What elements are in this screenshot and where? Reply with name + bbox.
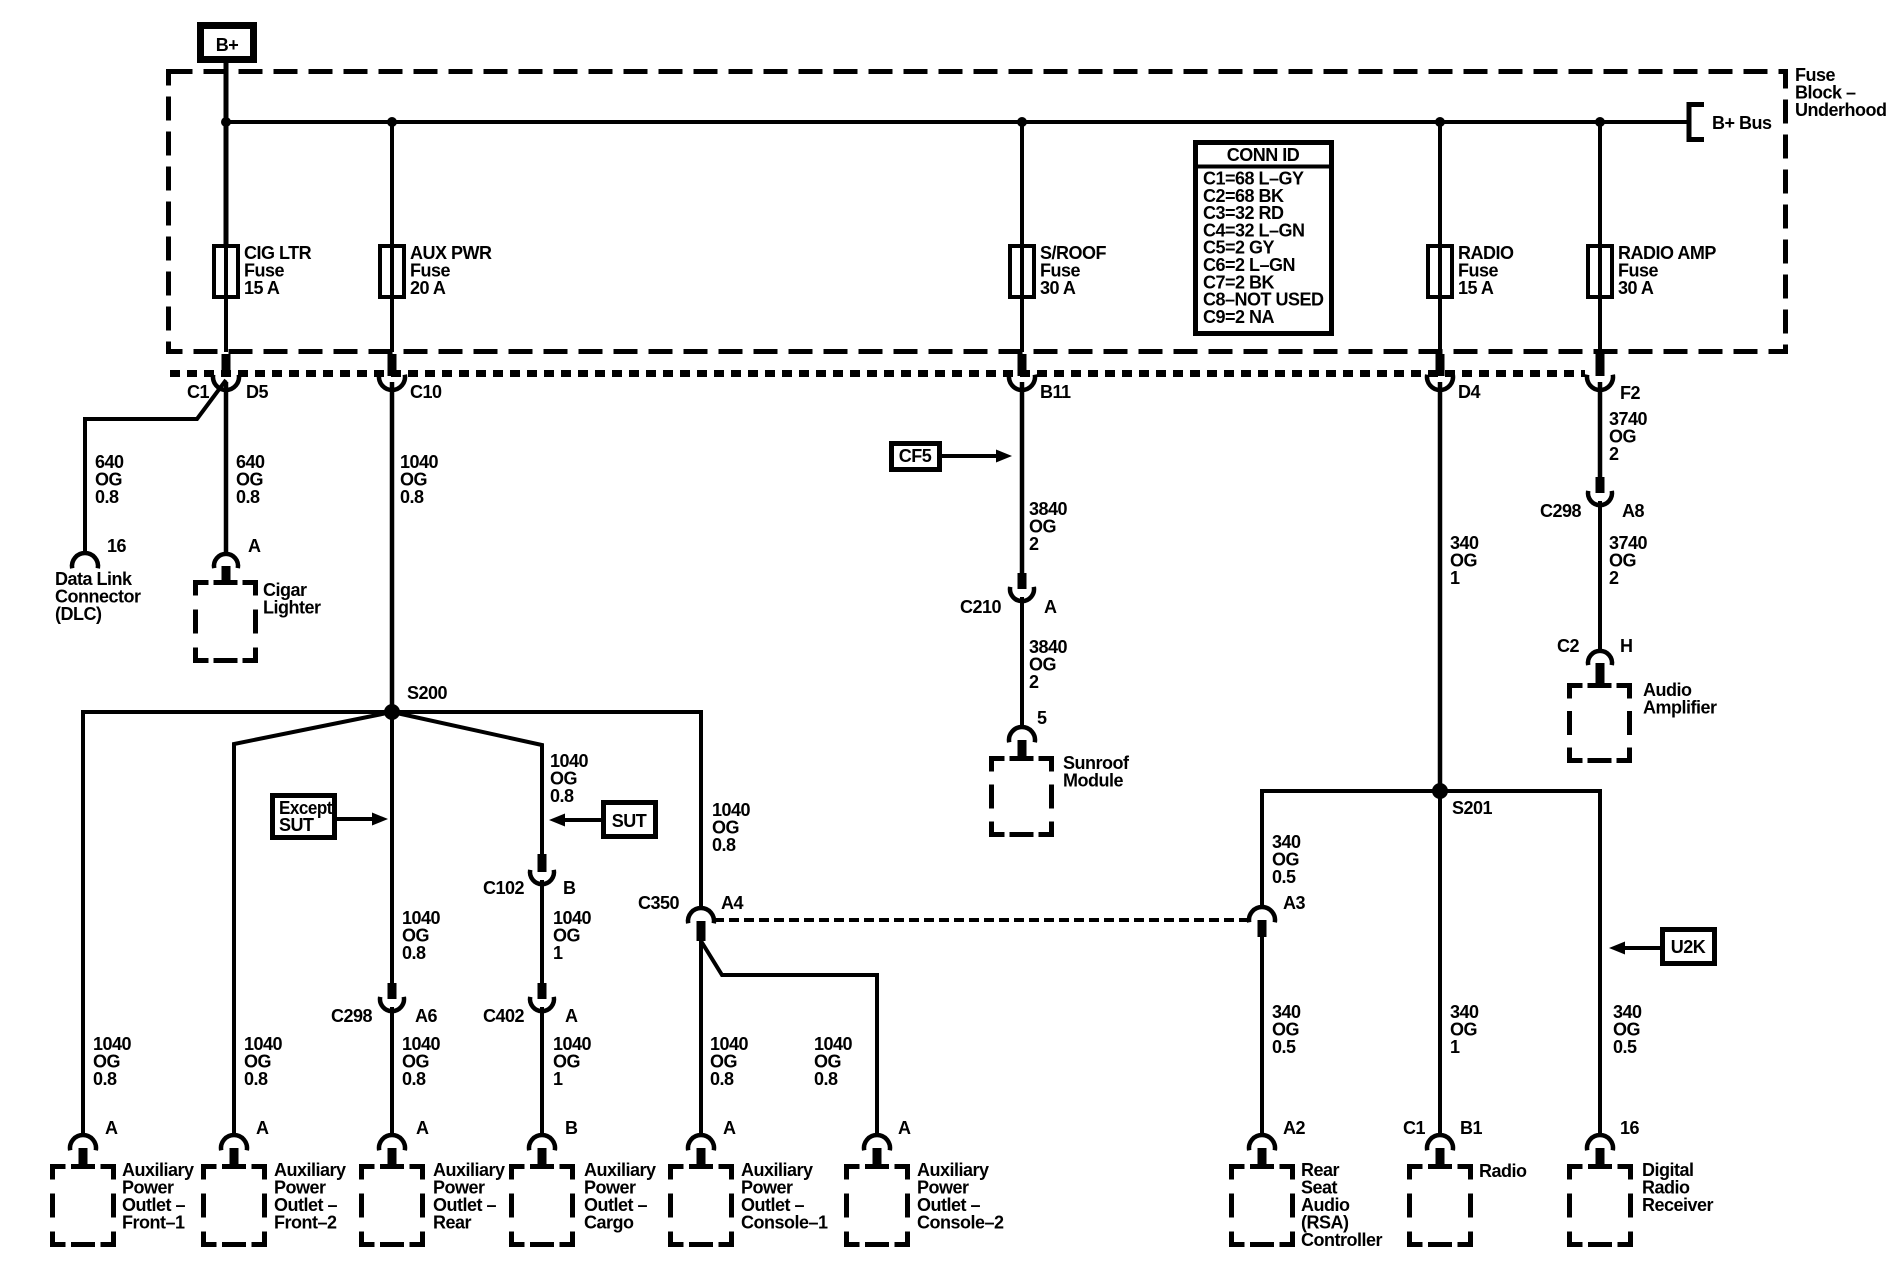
wire S200 to front-1 outlet	[83, 712, 392, 1135]
wire A3 to A2	[1260, 935, 1264, 1135]
auxiliary power outlet console-2 box	[847, 1167, 908, 1245]
wire CIG LTR fuse to connector row	[224, 297, 228, 352]
svg-text:2: 2	[1609, 568, 1619, 588]
wire label / connector pin A (console-1)	[688, 1118, 736, 1166]
wire label 1040 OG 1 (C102-C402)	[553, 908, 592, 963]
svg-text:A4: A4	[721, 893, 743, 913]
svg-text:0.8: 0.8	[402, 943, 426, 963]
pin 16 label	[107, 536, 127, 556]
wire label / connector pin A (console-2)	[864, 1118, 911, 1166]
svg-text:A: A	[565, 1006, 578, 1026]
svg-text:0.8: 0.8	[712, 835, 736, 855]
wire C102 to C402	[540, 880, 544, 983]
svg-text:C102: C102	[483, 878, 525, 898]
pin 5 label	[1037, 708, 1047, 728]
svg-text:CF5: CF5	[899, 446, 932, 466]
wire label 640 OG 0.8 (DLC)	[95, 452, 124, 507]
wire label 1040 OG 1 (cargo)	[553, 1034, 592, 1089]
wire label 3740 OG 2 (lower)	[1609, 533, 1648, 588]
arrow SUT to wire	[549, 814, 601, 827]
connector sunroof pin 5	[1009, 727, 1035, 757]
svg-text:Module: Module	[1063, 771, 1123, 791]
arrow Except SUT to wire	[337, 813, 388, 826]
svg-text:(DLC): (DLC)	[55, 604, 102, 624]
sunroof module box	[992, 759, 1052, 835]
connector A3 pin	[1249, 893, 1305, 937]
connector B11 pin	[1009, 354, 1071, 402]
svg-text:A: A	[248, 536, 261, 556]
wire D4 to S201	[1438, 382, 1443, 791]
svg-text:2: 2	[1029, 672, 1039, 692]
wire B+ to bus	[224, 63, 229, 246]
svg-text:Front–1: Front–1	[122, 1213, 185, 1233]
wire C350 to console-1 outlet	[699, 939, 703, 1135]
wire S200 to front-2 outlet	[234, 712, 392, 1135]
wire label 1040 OG 0.8 (C298 upper)	[402, 908, 441, 963]
wire S201 to A3	[1262, 791, 1440, 908]
auxiliary power outlet rear box	[362, 1167, 423, 1245]
wire C350 to console-2 outlet	[701, 941, 877, 1135]
svg-text:2: 2	[1029, 534, 1039, 554]
svg-text:0.8: 0.8	[236, 487, 260, 507]
svg-text:B: B	[563, 878, 576, 898]
svg-text:B: B	[565, 1118, 578, 1138]
fuse S/ROOF fuse 30 A	[1010, 243, 1107, 298]
wire label 340 OG 0.5 (DRR)	[1613, 1002, 1642, 1057]
fuse RADIO AMP fuse 30 A	[1588, 243, 1716, 298]
svg-text:15 A: 15 A	[244, 278, 280, 298]
connector C298 pin A6	[331, 983, 437, 1026]
svg-text:1: 1	[1450, 568, 1460, 588]
wire S200 to cargo branch	[392, 712, 542, 854]
svg-text:B11: B11	[1040, 382, 1071, 402]
connector C10 pin	[379, 354, 442, 402]
pin A2 label	[1283, 1118, 1305, 1138]
label Auxiliary Power Outlet rear	[433, 1160, 505, 1233]
svg-text:16: 16	[1620, 1118, 1640, 1138]
auxiliary power outlet cargo box	[512, 1167, 573, 1245]
svg-text:0.5: 0.5	[1613, 1037, 1637, 1057]
wire RADIO fuse to connector row	[1438, 297, 1442, 352]
wire S200 to C350 branch	[392, 712, 701, 909]
wire bus to CIG LTR fuse	[224, 122, 228, 246]
svg-text:30 A: 30 A	[1040, 278, 1076, 298]
wire C1 to DLC	[85, 380, 226, 553]
svg-text:B1: B1	[1460, 1118, 1482, 1138]
svg-text:0.8: 0.8	[550, 786, 574, 806]
power feed B+ box	[201, 26, 254, 60]
svg-text:CONN ID: CONN ID	[1227, 145, 1300, 165]
svg-text:Amplifier: Amplifier	[1643, 698, 1717, 718]
connector DRR pin 16	[1587, 1135, 1613, 1166]
label Sunroof Module	[1063, 753, 1130, 791]
connector D4 pin	[1427, 354, 1480, 402]
bus junction node col3	[1017, 117, 1027, 127]
label Digital Radio Receiver	[1642, 1160, 1714, 1215]
svg-text:D4: D4	[1458, 382, 1480, 402]
svg-text:S200: S200	[407, 683, 448, 703]
wire S/ROOF fuse to connector row	[1020, 297, 1024, 352]
wire label 1040 OG 0.8 (console-2)	[814, 1034, 853, 1089]
wire S200 down to C298	[390, 712, 394, 983]
wire C210 to sunroof module	[1020, 597, 1024, 727]
connector C210 pin A	[960, 573, 1057, 617]
svg-text:S201: S201	[1452, 798, 1493, 818]
svg-text:1: 1	[553, 1069, 563, 1089]
svg-text:A: A	[1044, 597, 1057, 617]
splice S201	[1432, 783, 1493, 818]
svg-text:15 A: 15 A	[1458, 278, 1494, 298]
svg-text:A3: A3	[1283, 893, 1305, 913]
label Auxiliary Power Outlet console-1	[741, 1160, 828, 1233]
svg-text:5: 5	[1037, 708, 1047, 728]
wire label / connector pin A (front-1)	[70, 1034, 132, 1166]
wire label 340 OG 0.5 (A2)	[1272, 1002, 1301, 1057]
cigar lighter box	[196, 583, 256, 661]
svg-text:Underhood: Underhood	[1795, 100, 1887, 120]
svg-text:U2K: U2K	[1671, 937, 1706, 957]
label Data Link Connector (DLC)	[55, 569, 141, 624]
wire C10 to S200	[390, 382, 395, 712]
wire label / connector pin A (front-2)	[221, 1034, 283, 1166]
pin A label (cigar)	[248, 536, 261, 556]
wire RADIO AMP fuse to connector row	[1598, 297, 1602, 352]
svg-text:1: 1	[1450, 1037, 1460, 1057]
label Fuse Block - Underhood	[1795, 65, 1887, 120]
callout U2K box	[1663, 930, 1715, 964]
svg-text:C2: C2	[1557, 636, 1579, 656]
wire label 3740 OG 2 (upper)	[1609, 409, 1648, 464]
wire bus to RADIO AMP fuse	[1598, 122, 1602, 246]
svg-text:0.8: 0.8	[402, 1069, 426, 1089]
wire D5 to cigar lighter	[224, 382, 229, 553]
svg-text:A: A	[105, 1118, 118, 1138]
B+ bus wire	[226, 120, 1687, 124]
svg-text:30 A: 30 A	[1618, 278, 1654, 298]
digital radio receiver box	[1570, 1167, 1631, 1245]
connector C298 pin A8	[1540, 477, 1644, 521]
wire label / connector pin A (rear)	[379, 1118, 429, 1166]
arrow U2K to wire	[1609, 942, 1660, 955]
wire F2 to C298	[1598, 382, 1603, 477]
label Cigar Lighter	[263, 580, 321, 618]
svg-text:B+ Bus: B+ Bus	[1712, 113, 1772, 133]
svg-text:C298: C298	[1540, 501, 1582, 521]
wire B11 to C210	[1020, 382, 1025, 573]
svg-text:Lighter: Lighter	[263, 598, 321, 618]
svg-text:0.5: 0.5	[1272, 1037, 1296, 1057]
svg-text:C210: C210	[960, 597, 1002, 617]
label Auxiliary Power Outlet front-2	[274, 1160, 346, 1233]
svg-text:Cargo: Cargo	[584, 1213, 634, 1233]
connector RSA pin A2	[1249, 1135, 1275, 1166]
svg-text:Receiver: Receiver	[1642, 1195, 1714, 1215]
wire bus to S/ROOF fuse	[1020, 122, 1024, 246]
svg-text:A6: A6	[415, 1006, 437, 1026]
wire C298 to C2	[1598, 501, 1602, 651]
connector F2 pin	[1587, 354, 1640, 403]
svg-text:1: 1	[553, 943, 563, 963]
connector C1/D5 pin	[187, 354, 268, 402]
svg-text:D5: D5	[246, 382, 268, 402]
wire label / connector pin B (cargo)	[529, 1118, 578, 1166]
wire S201 to digital radio receiver	[1440, 791, 1600, 1135]
svg-text:A: A	[723, 1118, 736, 1138]
wire C402 to cargo outlet	[540, 1007, 544, 1135]
pin 16 label (DRR)	[1620, 1118, 1640, 1138]
wire S201 to radio	[1438, 791, 1442, 1135]
svg-text:H: H	[1620, 636, 1633, 656]
svg-text:Rear: Rear	[433, 1213, 472, 1233]
rear seat audio controller box	[1232, 1167, 1293, 1245]
bus junction node col4	[1435, 117, 1445, 127]
wire label 1040 OG 0.8 (C350 upper)	[712, 800, 751, 855]
fuse block pass-through dotted row	[170, 370, 1585, 377]
svg-text:C298: C298	[331, 1006, 373, 1026]
svg-text:Radio: Radio	[1479, 1161, 1527, 1181]
svg-text:C1: C1	[1403, 1118, 1425, 1138]
connector cigar lighter pin A	[214, 554, 238, 582]
callout Except SUT box	[273, 796, 335, 838]
bus junction node col1	[221, 117, 231, 127]
svg-text:C402: C402	[483, 1006, 525, 1026]
wire AUX PWR fuse to connector row	[390, 297, 394, 352]
svg-text:F2: F2	[1620, 383, 1640, 403]
wire bus to AUX PWR fuse	[390, 122, 394, 246]
radio box	[1410, 1167, 1471, 1245]
auxiliary power outlet console-1 box	[671, 1167, 732, 1245]
svg-text:A2: A2	[1283, 1118, 1305, 1138]
svg-text:A: A	[898, 1118, 911, 1138]
B+ bus terminal bracket	[1689, 105, 1772, 140]
wire label 1040 OG 0.8 (C10)	[400, 452, 439, 507]
svg-text:Front–2: Front–2	[274, 1213, 337, 1233]
svg-text:A8: A8	[1622, 501, 1644, 521]
audio amplifier box	[1570, 686, 1630, 761]
auxiliary power outlet front-2 box	[204, 1167, 265, 1245]
svg-text:C9=2 NA: C9=2 NA	[1203, 307, 1275, 327]
wire label 1040 OG 0.8 (console-1)	[710, 1034, 749, 1089]
label Auxiliary Power Outlet console-2	[917, 1160, 1004, 1233]
wire bus to RADIO fuse	[1438, 122, 1442, 246]
label Rear Seat Audio (RSA) Controller	[1301, 1160, 1382, 1250]
bus junction node col2	[387, 117, 397, 127]
fuse RADIO fuse 15 A	[1428, 243, 1514, 298]
wire label 640 OG 0.8 (cigar)	[236, 452, 265, 507]
pin C1/B1 labels	[1403, 1118, 1482, 1138]
wire C298 to rear outlet	[390, 1007, 394, 1135]
wire label 3840 OG 2 (lower)	[1029, 637, 1068, 692]
svg-text:A: A	[416, 1118, 429, 1138]
splice S200	[384, 683, 448, 720]
label Auxiliary Power Outlet cargo	[584, 1160, 656, 1233]
CONN ID table	[1195, 143, 1332, 334]
dashed wire C350 A4 to RSA A3	[714, 918, 1249, 922]
bus junction node col5	[1595, 117, 1605, 127]
svg-text:0.8: 0.8	[95, 487, 119, 507]
fuse block - underhood dashed boundary	[169, 72, 1786, 352]
svg-text:Console–2: Console–2	[917, 1213, 1004, 1233]
svg-text:0.5: 0.5	[1272, 867, 1296, 887]
auxiliary power outlet front-1 box	[53, 1167, 114, 1245]
svg-text:Controller: Controller	[1301, 1230, 1382, 1250]
label Audio Amplifier	[1643, 680, 1717, 718]
connector C2 pin H	[1557, 636, 1633, 684]
svg-text:SUT: SUT	[279, 815, 314, 835]
svg-text:SUT: SUT	[612, 811, 647, 831]
connector radio pin B1	[1427, 1135, 1453, 1166]
svg-text:C350: C350	[638, 893, 680, 913]
connector C402 pin A	[483, 983, 578, 1026]
svg-text:2: 2	[1609, 444, 1619, 464]
svg-text:A: A	[256, 1118, 269, 1138]
callout SUT box	[604, 803, 656, 837]
connector C350 pin A4	[638, 893, 743, 941]
wire label 1040 OG 0.8 (rear)	[402, 1034, 441, 1089]
fuse AUX PWR fuse 20 A	[380, 243, 492, 298]
svg-text:B+: B+	[216, 35, 239, 55]
label Auxiliary Power Outlet front-1	[122, 1160, 194, 1233]
connector C102 pin B	[483, 854, 576, 898]
wire label 1040 OG 0.8 (cargo upper)	[550, 751, 589, 806]
svg-text:0.8: 0.8	[710, 1069, 734, 1089]
svg-text:0.8: 0.8	[400, 487, 424, 507]
svg-text:0.8: 0.8	[244, 1069, 268, 1089]
svg-text:16: 16	[107, 536, 127, 556]
svg-text:20 A: 20 A	[410, 278, 446, 298]
svg-text:C10: C10	[410, 382, 442, 402]
wire label 340 OG 0.5 (A3 upper)	[1272, 832, 1301, 887]
svg-text:Console–1: Console–1	[741, 1213, 828, 1233]
svg-text:0.8: 0.8	[814, 1069, 838, 1089]
arrow CF5 to wire	[941, 450, 1012, 463]
wire label 3840 OG 2 (upper)	[1029, 499, 1068, 554]
label Radio	[1479, 1161, 1527, 1181]
svg-text:0.8: 0.8	[93, 1069, 117, 1089]
callout CF5 box	[892, 444, 940, 470]
svg-text:C1: C1	[187, 382, 209, 402]
wire label 340 OG 1 (upper)	[1450, 533, 1479, 588]
wire label 340 OG 1 (radio)	[1450, 1002, 1479, 1057]
connector DLC pin 16	[72, 553, 98, 568]
fuse CIG LTR fuse 15 A	[214, 243, 312, 298]
